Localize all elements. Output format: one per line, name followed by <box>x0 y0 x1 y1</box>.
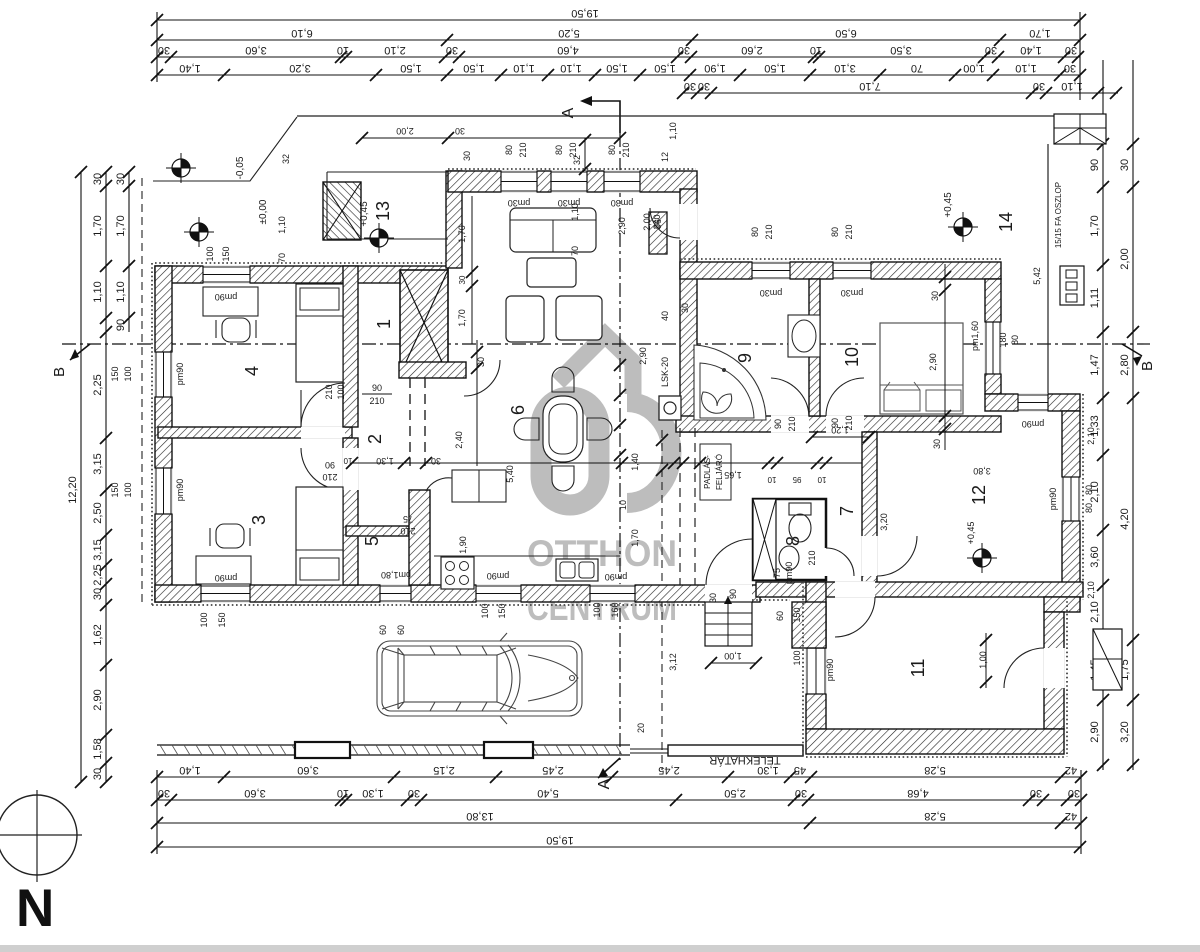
svg-text:3,60: 3,60 <box>1089 546 1101 567</box>
svg-text:3,20: 3,20 <box>879 513 889 531</box>
svg-text:42: 42 <box>1065 810 1077 822</box>
svg-text:1,40: 1,40 <box>179 62 200 74</box>
door arc room12 <box>877 536 917 576</box>
svg-text:1,58: 1,58 <box>92 738 104 759</box>
svg-text:30: 30 <box>455 126 465 136</box>
svg-text:+0,45: +0,45 <box>359 201 370 227</box>
wall room11 left <box>806 582 826 729</box>
svg-text:210: 210 <box>518 142 528 157</box>
chimney block <box>400 270 448 375</box>
dim line corridor-living y466 <box>343 456 862 484</box>
svg-text:pm30: pm30 <box>841 288 864 298</box>
svg-text:pm30: pm30 <box>611 198 634 208</box>
svg-text:9: 9 <box>735 353 755 363</box>
living sofa <box>510 208 596 252</box>
svg-text:1,70: 1,70 <box>630 529 640 547</box>
svg-text:2,10: 2,10 <box>1086 581 1096 599</box>
wooden column symbol <box>1060 266 1084 305</box>
svg-text:1: 1 <box>374 319 394 329</box>
svg-text:2,90: 2,90 <box>928 353 938 371</box>
dim line porch vertical <box>579 134 591 175</box>
svg-text:150: 150 <box>217 612 227 627</box>
gate 1 <box>295 742 350 758</box>
svg-text:2,90: 2,90 <box>1089 721 1101 742</box>
svg-text:90: 90 <box>115 319 127 331</box>
dining table <box>543 396 583 462</box>
svg-text:10: 10 <box>337 44 349 56</box>
svg-text:pm1,80: pm1,80 <box>381 570 411 580</box>
boundary dashed vertical left <box>141 178 143 602</box>
svg-text:5,20: 5,20 <box>558 27 579 39</box>
svg-text:±0,00: ±0,00 <box>258 199 269 224</box>
door gap room11 <box>835 581 875 598</box>
svg-text:11: 11 <box>908 659 928 678</box>
svg-text:1,10: 1,10 <box>570 203 580 221</box>
svg-text:1,30: 1,30 <box>376 456 394 466</box>
svg-text:30: 30 <box>684 80 696 92</box>
svg-text:1,10: 1,10 <box>560 62 581 74</box>
svg-text:90: 90 <box>325 460 335 470</box>
svg-text:6,50: 6,50 <box>835 27 856 39</box>
svg-text:B: B <box>51 367 68 377</box>
window kitchen bottom pm90 <box>476 584 521 603</box>
svg-text:100: 100 <box>336 384 346 399</box>
section marker A top <box>560 96 620 133</box>
svg-text:1,00: 1,00 <box>724 651 742 661</box>
svg-text:1,47: 1,47 <box>1089 354 1101 375</box>
svg-text:10: 10 <box>842 347 862 367</box>
padlas feljaro label box <box>700 444 731 500</box>
room3 desk <box>196 556 251 584</box>
svg-text:32: 32 <box>281 154 291 164</box>
dim chain bottom row1 <box>151 764 1087 783</box>
svg-text:30: 30 <box>985 44 997 56</box>
svg-text:90: 90 <box>372 383 382 393</box>
svg-text:1,50: 1,50 <box>400 62 421 74</box>
window kitchen2 bottom pm90 <box>590 584 635 603</box>
svg-text:1,10: 1,10 <box>668 122 678 140</box>
terrace corner steps box <box>1054 114 1106 144</box>
section marker A bottom <box>596 758 620 789</box>
dim chain top row2 <box>151 27 1086 46</box>
WC toilet <box>789 503 811 542</box>
kitchen counter upper <box>452 470 506 502</box>
svg-text:30: 30 <box>932 439 942 449</box>
dim chain steps <box>705 651 762 669</box>
kitchen counter <box>434 555 620 557</box>
svg-text:1,11: 1,11 <box>1089 288 1101 309</box>
svg-text:30: 30 <box>678 44 690 56</box>
window room10 east pm1,60 <box>984 322 1002 374</box>
wall rooms9-10 top <box>680 262 1001 279</box>
door gap room3 <box>342 448 359 490</box>
door gap room9 <box>771 415 809 433</box>
wall room11 bottom <box>806 729 1064 754</box>
svg-text:210: 210 <box>844 224 854 239</box>
dashed vertical attic line <box>661 430 663 770</box>
svg-text:90: 90 <box>1089 159 1101 171</box>
LSK-20 label <box>660 357 670 387</box>
svg-text:7,10: 7,10 <box>859 80 880 92</box>
wall room10 right <box>985 279 1001 394</box>
dim chain porch <box>356 126 626 144</box>
door jamb pier living entry <box>649 212 667 254</box>
room10 bed <box>880 323 963 414</box>
svg-text:60: 60 <box>378 625 388 635</box>
svg-text:5,28: 5,28 <box>924 810 945 822</box>
canopy outline top-left <box>153 117 297 181</box>
svg-text:2,10: 2,10 <box>1086 427 1096 445</box>
level marker -0,05 <box>166 153 196 183</box>
wall room11 right <box>1044 612 1064 729</box>
svg-text:210: 210 <box>400 526 415 536</box>
page bottom scan shadow <box>0 945 1200 952</box>
terrace right edge <box>1047 144 1049 411</box>
svg-text:210: 210 <box>807 550 817 565</box>
svg-text:8: 8 <box>783 536 803 546</box>
svg-text:2,00: 2,00 <box>396 126 414 136</box>
svg-text:20: 20 <box>636 723 646 733</box>
room3 chair <box>210 524 250 548</box>
fence along street <box>157 745 630 755</box>
kitchen stove <box>441 557 474 589</box>
dim chain top total 19,50 <box>151 7 1086 26</box>
wall chimney base <box>399 362 466 378</box>
property line plate <box>668 745 803 756</box>
svg-text:30: 30 <box>698 80 710 92</box>
svg-text:2,90: 2,90 <box>617 217 627 235</box>
window room10 pm30 <box>833 261 871 280</box>
wall room9-room10 <box>809 279 820 416</box>
svg-text:FELJÁRÓ: FELJÁRÓ <box>715 454 724 490</box>
svg-text:30: 30 <box>1064 62 1076 74</box>
svg-text:pm90: pm90 <box>1022 419 1045 429</box>
svg-text:30: 30 <box>408 787 420 799</box>
dining chairs <box>514 367 612 491</box>
svg-text:5,42: 5,42 <box>1032 267 1042 285</box>
wall left wing bottom <box>155 585 760 602</box>
svg-text:B: B <box>1139 361 1156 371</box>
svg-text:2,80: 2,80 <box>1119 354 1131 375</box>
svg-text:1,10: 1,10 <box>277 216 287 234</box>
svg-text:1,90: 1,90 <box>458 536 468 554</box>
section line A-A vertical <box>619 133 621 760</box>
svg-text:2,00: 2,00 <box>1119 248 1131 269</box>
svg-text:4,20: 4,20 <box>1119 508 1131 529</box>
svg-text:pm90: pm90 <box>215 292 238 302</box>
svg-text:30: 30 <box>1030 787 1042 799</box>
svg-text:10: 10 <box>767 475 776 484</box>
LSK-20 heater <box>659 396 681 420</box>
svg-text:80: 80 <box>750 227 760 237</box>
svg-text:19,50: 19,50 <box>546 834 574 846</box>
living armchair b <box>556 296 602 340</box>
svg-text:pm90: pm90 <box>1048 488 1058 511</box>
section line B-B horizontal <box>62 343 1150 345</box>
dim chain left row2 <box>92 166 112 788</box>
svg-text:pm30: pm30 <box>760 288 783 298</box>
svg-text:210: 210 <box>621 142 631 157</box>
window room4 top pm90 <box>203 265 250 284</box>
svg-text:14: 14 <box>996 212 1016 232</box>
svg-text:1,40: 1,40 <box>179 764 200 776</box>
dim chain top row5 partial <box>677 80 1122 99</box>
svg-text:30: 30 <box>708 593 718 603</box>
svg-text:3,15: 3,15 <box>92 539 104 560</box>
svg-text:1,70: 1,70 <box>1029 27 1050 39</box>
svg-text:30: 30 <box>795 787 807 799</box>
wall pantry right <box>409 490 430 585</box>
window room11 pm90 <box>805 648 827 694</box>
svg-text:1,50: 1,50 <box>606 62 627 74</box>
wall pantry top <box>346 526 409 536</box>
wall hall-room11 top <box>756 582 1083 597</box>
svg-text:1,20: 1,20 <box>831 425 849 435</box>
dim chain right outer <box>1119 60 1139 771</box>
level marker porch +0,45 <box>364 223 394 253</box>
svg-text:pm90: pm90 <box>175 479 185 502</box>
svg-text:3,15: 3,15 <box>92 453 104 474</box>
room4 chair <box>216 318 256 342</box>
dim line room10 vertical <box>930 264 951 450</box>
svg-text:10: 10 <box>618 500 628 510</box>
svg-text:60: 60 <box>775 611 785 621</box>
svg-text:A: A <box>560 107 577 118</box>
window pantry bottom pm180 <box>380 584 411 603</box>
svg-text:N: N <box>16 879 54 938</box>
svg-text:2,90: 2,90 <box>92 689 104 710</box>
svg-text:210: 210 <box>764 224 774 239</box>
svg-text:1,00: 1,00 <box>963 62 984 74</box>
svg-text:80: 80 <box>1010 335 1020 345</box>
door arc room11 <box>835 597 875 637</box>
north arrow <box>0 790 82 882</box>
svg-text:80: 80 <box>830 227 840 237</box>
svg-text:210: 210 <box>324 384 334 399</box>
wall living top <box>448 171 697 192</box>
svg-text:3,80: 3,80 <box>973 466 991 476</box>
dim chain left total 12,20 <box>67 166 87 788</box>
door arc kitchen <box>426 478 452 491</box>
WC room8 walls <box>753 499 826 580</box>
svg-text:1,50: 1,50 <box>463 62 484 74</box>
svg-text:pm90: pm90 <box>487 571 510 581</box>
svg-text:32: 32 <box>572 155 582 165</box>
svg-text:30: 30 <box>930 291 940 301</box>
svg-text:80: 80 <box>1084 503 1094 513</box>
section marker B right <box>1122 344 1156 371</box>
svg-text:12: 12 <box>969 485 989 505</box>
svg-text:OTTHON: OTTHON <box>527 533 677 574</box>
svg-text:2,25: 2,25 <box>92 564 104 585</box>
level marker terrace +0,45 <box>948 212 978 242</box>
svg-text:30: 30 <box>446 44 458 56</box>
svg-text:90: 90 <box>728 589 738 599</box>
svg-text:80: 80 <box>554 145 564 155</box>
insulation dotted lines <box>152 169 1083 757</box>
door gap room10 <box>826 415 864 433</box>
wall room4-corridor <box>343 266 358 427</box>
svg-text:3,20: 3,20 <box>289 62 310 74</box>
svg-text:pm1,60: pm1,60 <box>970 321 980 351</box>
exterior steps right <box>1093 629 1122 690</box>
svg-text:30: 30 <box>431 456 441 466</box>
svg-text:10: 10 <box>817 475 826 484</box>
window room3 bottom pm90 <box>201 584 250 603</box>
svg-text:30: 30 <box>1065 44 1077 56</box>
svg-text:75: 75 <box>772 568 782 578</box>
dim chain end connectors <box>157 12 1081 854</box>
svg-text:5: 5 <box>362 536 382 546</box>
window living pm30 a <box>501 170 537 193</box>
svg-text:1,70: 1,70 <box>92 215 104 236</box>
svg-text:pm90: pm90 <box>825 659 835 682</box>
room3 bed <box>296 487 343 585</box>
living armchair a <box>506 296 544 342</box>
dim chain top row4 <box>151 62 1086 81</box>
entry door gap <box>705 584 752 603</box>
attic hatch dashed <box>679 428 681 585</box>
svg-text:1,10: 1,10 <box>115 281 127 302</box>
svg-text:1,50: 1,50 <box>764 62 785 74</box>
window room12 top pm90 <box>1018 393 1048 412</box>
room4 bed <box>296 284 343 382</box>
svg-text:80: 80 <box>607 145 617 155</box>
svg-text:30: 30 <box>158 44 170 56</box>
svg-text:30: 30 <box>92 173 104 185</box>
svg-text:TELEKHATÁR: TELEKHATÁR <box>709 754 780 767</box>
svg-text:180: 180 <box>998 332 1008 347</box>
gate 2 <box>484 742 533 758</box>
svg-text:1,70: 1,70 <box>457 225 467 243</box>
svg-text:LSK-20: LSK-20 <box>660 357 670 387</box>
dim line room11 vertical 1,00 <box>980 633 992 688</box>
window living pm30 c <box>604 170 640 193</box>
svg-text:4,68: 4,68 <box>907 787 928 799</box>
door arc living side <box>464 360 500 396</box>
svg-text:40: 40 <box>660 311 670 321</box>
svg-text:30: 30 <box>1033 80 1045 92</box>
svg-text:4: 4 <box>242 366 262 376</box>
wall left outer <box>155 266 172 602</box>
svg-text:10: 10 <box>337 787 349 799</box>
svg-text:3,60: 3,60 <box>244 787 265 799</box>
svg-text:150: 150 <box>110 366 120 381</box>
svg-text:+0,45: +0,45 <box>943 192 954 218</box>
door arc room4 <box>301 383 345 427</box>
svg-text:pm90: pm90 <box>215 573 238 583</box>
dim chain bottom row2 <box>151 787 1087 806</box>
window dim labels <box>110 122 1096 733</box>
svg-text:70: 70 <box>277 253 287 263</box>
svg-text:240: 240 <box>652 214 662 229</box>
svg-text:100: 100 <box>123 482 133 497</box>
wall jog 12-11 <box>1044 597 1080 612</box>
svg-text:70: 70 <box>570 246 580 256</box>
svg-text:1,50: 1,50 <box>654 62 675 74</box>
wall rooms4-3 divider <box>158 427 352 438</box>
svg-text:2: 2 <box>365 434 385 444</box>
window living pm30 b <box>551 170 587 193</box>
svg-text:1,65: 1,65 <box>724 470 742 480</box>
wall corridor right upper <box>446 171 462 268</box>
svg-text:1,40: 1,40 <box>1020 44 1041 56</box>
svg-text:2,10: 2,10 <box>1089 601 1101 622</box>
svg-text:PADLÁS-: PADLÁS- <box>703 455 712 489</box>
svg-text:6,10: 6,10 <box>291 27 312 39</box>
svg-text:100: 100 <box>792 650 802 665</box>
door gap garage exit <box>1043 648 1065 688</box>
car <box>377 633 582 724</box>
svg-text:1,62: 1,62 <box>92 624 104 645</box>
svg-text:5,40: 5,40 <box>537 787 558 799</box>
svg-text:30: 30 <box>92 768 104 780</box>
door gap room4 <box>301 426 345 439</box>
svg-text:80: 80 <box>1084 485 1094 495</box>
dim chain bottom total 19,50 <box>151 834 1086 853</box>
window room9 pm30 <box>752 261 790 280</box>
door arc WC <box>826 548 854 576</box>
svg-text:3: 3 <box>249 515 269 525</box>
svg-text:1,70: 1,70 <box>457 309 467 327</box>
svg-text:2,50: 2,50 <box>724 787 745 799</box>
dim line living west vertical <box>457 196 478 344</box>
svg-text:pm90: pm90 <box>605 572 628 582</box>
svg-text:2,25: 2,25 <box>92 374 104 395</box>
svg-text:1,10: 1,10 <box>92 281 104 302</box>
svg-text:1,10: 1,10 <box>513 62 534 74</box>
door arc room3 <box>301 448 343 490</box>
svg-text:45: 45 <box>794 764 806 776</box>
living coffee table <box>527 258 576 287</box>
svg-text:42: 42 <box>1065 764 1077 776</box>
wall room12 right <box>1062 411 1080 600</box>
svg-text:3,20: 3,20 <box>1119 721 1131 742</box>
svg-text:1,10: 1,10 <box>1015 62 1036 74</box>
entry steps <box>705 596 752 646</box>
door dim 90/210 corridor <box>362 383 392 406</box>
window room4 left pm90 <box>154 352 173 397</box>
svg-text:75: 75 <box>403 514 413 524</box>
level marker room12 +0,45 <box>967 543 997 573</box>
svg-text:30: 30 <box>115 173 127 185</box>
wall room3-corridor <box>343 438 358 585</box>
svg-text:150: 150 <box>792 607 802 622</box>
svg-text:pm90: pm90 <box>175 363 185 386</box>
svg-text:7: 7 <box>837 506 857 516</box>
svg-text:A: A <box>596 778 613 789</box>
svg-text:210: 210 <box>787 416 797 431</box>
door arc garage exit <box>1004 648 1044 688</box>
svg-text:80: 80 <box>504 145 514 155</box>
svg-text:+0,45: +0,45 <box>966 522 976 545</box>
svg-text:2,60: 2,60 <box>741 44 762 56</box>
bathroom sink <box>788 315 820 357</box>
dim chain hall right <box>806 425 875 443</box>
watermark OTTHON CENTRUM <box>527 533 677 628</box>
svg-text:30: 30 <box>1119 159 1131 171</box>
svg-text:2,00: 2,00 <box>642 213 652 231</box>
svg-text:pm90: pm90 <box>784 562 794 585</box>
svg-text:100: 100 <box>205 246 215 261</box>
svg-text:3,10: 3,10 <box>834 62 855 74</box>
svg-text:10: 10 <box>810 44 822 56</box>
door gap room12 <box>861 536 878 576</box>
svg-text:13: 13 <box>373 201 393 221</box>
svg-text:30: 30 <box>158 787 170 799</box>
porch pillar <box>323 182 361 240</box>
svg-text:pm30: pm30 <box>508 198 531 208</box>
